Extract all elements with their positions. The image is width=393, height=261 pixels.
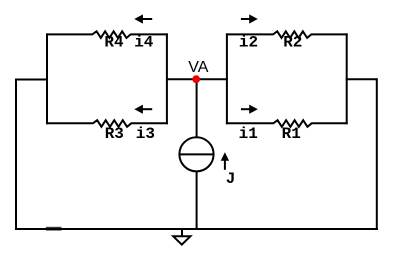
svg-text:R2: R2 <box>283 33 302 51</box>
svg-text:J: J <box>226 170 236 188</box>
svg-text:i4: i4 <box>134 33 154 51</box>
svg-text:R1: R1 <box>282 125 301 143</box>
svg-text:i2: i2 <box>239 33 258 51</box>
svg-text:R3: R3 <box>105 125 124 143</box>
svg-text:i3: i3 <box>136 125 155 143</box>
svg-text:VA: VA <box>188 59 208 76</box>
svg-text:i1: i1 <box>239 125 258 143</box>
svg-text:R4: R4 <box>104 33 124 51</box>
